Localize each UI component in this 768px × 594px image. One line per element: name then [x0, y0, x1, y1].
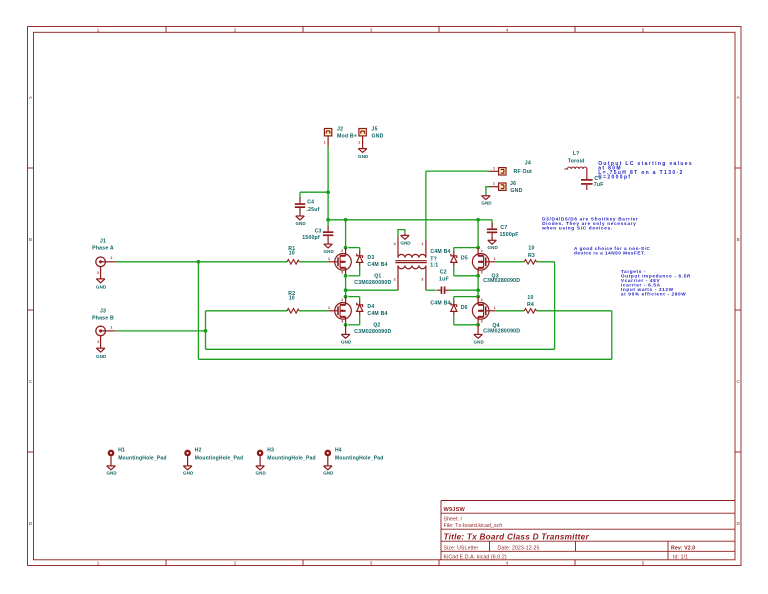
svg-text:GND: GND — [256, 471, 267, 476]
wire R3 to vertical — [537, 261, 555, 263]
svg-text:MountingHole_Pad: MountingHole_Pad — [195, 455, 243, 461]
capacitor C2 1uF — [441, 287, 444, 294]
wire rail C3 to Q1 branch — [328, 219, 346, 221]
junction rail at C3 — [326, 218, 330, 222]
connector J1 Phase A symbol — [96, 257, 115, 279]
svg-text:GND: GND — [96, 354, 107, 359]
transformer T1 1:1 — [395, 237, 426, 291]
svg-text:3: 3 — [481, 271, 483, 275]
wire Phase A to R1 — [198, 261, 287, 263]
connector J5 GND — [359, 129, 366, 136]
svg-text:10: 10 — [289, 296, 295, 302]
ground at H1 — [107, 466, 116, 470]
ground at J5 — [358, 146, 367, 152]
svg-text:1: 1 — [494, 257, 496, 261]
svg-text:C3M0280090D: C3M0280090D — [483, 278, 520, 284]
wire C2 to Q3 source rail — [449, 289, 478, 291]
ground at J3 — [96, 348, 105, 352]
svg-text:KiCad E.D.A. kicad (6.0.2): KiCad E.D.A. kicad (6.0.2) — [444, 555, 507, 561]
ground at H2 — [183, 466, 192, 470]
svg-text:1: 1 — [324, 141, 326, 145]
junction Q1 source node — [344, 274, 348, 278]
title block — [441, 501, 735, 560]
svg-text:Phase B: Phase B — [92, 316, 114, 322]
svg-text:J3: J3 — [100, 308, 106, 314]
svg-text:L?: L? — [573, 151, 580, 157]
wire D5 bottom to Q3 source — [454, 275, 478, 277]
svg-text:MountingHole_Pad: MountingHole_Pad — [267, 455, 315, 461]
svg-text:GND: GND — [96, 285, 107, 290]
ground at Q2 — [341, 325, 350, 339]
wire transformer pin4 to ground loop — [398, 230, 405, 237]
diode D4 C4M B4 schottky — [357, 300, 363, 315]
wire to C4 — [300, 191, 328, 193]
connector J4 RF Out — [499, 168, 506, 175]
wire D3 bottom to Q1 source — [348, 275, 360, 277]
capacitor C? 7uF — [581, 180, 593, 184]
wire Phase B to R2 — [206, 310, 288, 312]
svg-text:H4: H4 — [335, 448, 342, 454]
diode D3 C4M B4 schottky — [357, 251, 363, 266]
svg-text:GND: GND — [474, 340, 485, 345]
svg-text:10: 10 — [527, 295, 533, 301]
resistor R3 10 — [524, 260, 536, 265]
wire Phase B from J3 to junction — [115, 330, 206, 332]
svg-text:Phase A: Phase A — [92, 246, 114, 252]
svg-text:1: 1 — [421, 242, 423, 246]
wire Phase A bottom run to R4 side — [198, 358, 611, 360]
svg-text:C3M0280090D: C3M0280090D — [354, 329, 391, 335]
svg-text:1: 1 — [328, 257, 330, 261]
ground at J1 — [96, 279, 105, 283]
junction Q2 source node — [344, 323, 348, 327]
svg-text:2: 2 — [234, 561, 237, 566]
svg-text:1: 1 — [358, 141, 360, 145]
svg-text:2: 2 — [97, 271, 99, 275]
svg-text:2: 2 — [234, 28, 237, 33]
svg-text:3: 3 — [341, 271, 343, 275]
wire L? to C? — [586, 169, 588, 174]
ground at H3 — [256, 466, 265, 470]
ground at H4 — [324, 466, 333, 470]
svg-text:J4: J4 — [525, 161, 531, 167]
svg-text:Size: USLetter: Size: USLetter — [444, 546, 479, 552]
svg-text:B: B — [737, 237, 740, 242]
wire D5 top elbow — [453, 248, 455, 252]
wire D3 bottom elbow — [359, 266, 361, 276]
svg-text:1500pF: 1500pF — [500, 232, 519, 238]
svg-text:3: 3 — [341, 320, 343, 324]
ground at J6 — [482, 196, 491, 200]
svg-text:1: 1 — [493, 166, 495, 170]
svg-text:1uF: 1uF — [439, 277, 449, 283]
junction Q3 source node — [476, 274, 480, 278]
wire Phase B bottom run to R3 side — [206, 348, 555, 350]
mounting hole H4 MountingHole_Pad — [326, 451, 330, 455]
svg-text:5: 5 — [642, 561, 645, 566]
J2 pin — [327, 136, 329, 146]
junction node Phase B split — [204, 329, 208, 333]
svg-text:D4: D4 — [367, 304, 374, 310]
capacitor C4 .25uf — [295, 204, 305, 207]
wire J6 to ground — [486, 187, 490, 196]
svg-text:File: Tx-board.kicad_sch: File: Tx-board.kicad_sch — [444, 523, 503, 529]
wire D4 bottom to Q2 source — [348, 324, 360, 326]
ground at C3 — [324, 242, 333, 248]
svg-text:R4: R4 — [527, 302, 534, 308]
svg-text:10: 10 — [528, 245, 534, 251]
junction Q1 drain node — [344, 246, 348, 250]
svg-text:Toroid: Toroid — [568, 158, 585, 164]
wire rail Q1 branch to Q3 branch — [346, 219, 479, 221]
junction Q4 drain node — [476, 295, 480, 299]
transistor Q1 C3M0280090D — [329, 248, 352, 276]
svg-text:2: 2 — [341, 298, 343, 302]
svg-text:GND: GND — [183, 471, 194, 476]
wire Q3 drain to D5 top — [454, 247, 478, 249]
mounting hole H1 MountingHole_Pad — [109, 451, 113, 455]
svg-text:1: 1 — [111, 325, 113, 329]
svg-text:H1: H1 — [118, 448, 125, 454]
svg-text:GND: GND — [323, 471, 334, 476]
svg-text:H2: H2 — [195, 448, 202, 454]
svg-text:Q2: Q2 — [373, 323, 380, 329]
svg-text:C4: C4 — [307, 199, 314, 205]
svg-text:GND: GND — [324, 249, 335, 254]
svg-text:.25uf: .25uf — [306, 207, 319, 213]
junction Q4 source node — [476, 323, 480, 327]
wire C4 stub — [299, 192, 301, 198]
svg-text:C7: C7 — [500, 225, 507, 231]
svg-text:1:1: 1:1 — [430, 262, 438, 268]
connector J6 GND — [499, 183, 506, 190]
wire R2 to Q2 gate — [299, 310, 328, 312]
wire D3 top elbow — [359, 248, 361, 252]
svg-text:MountingHole_Pad: MountingHole_Pad — [118, 455, 166, 461]
svg-text:2: 2 — [97, 340, 99, 344]
wire Phase B vertical — [205, 311, 207, 350]
svg-text:4: 4 — [394, 242, 396, 246]
wire Q3 gate to R3 — [495, 261, 524, 263]
wire Q1 drain to D3 top — [348, 247, 360, 249]
svg-text:GND: GND — [372, 133, 384, 139]
wire rail down to Q3 drain — [477, 220, 479, 248]
svg-text:R3: R3 — [528, 253, 535, 259]
wire J2 down to rail — [327, 192, 329, 220]
wire vertical up to R4 right — [611, 311, 613, 360]
ground at C7 — [488, 238, 497, 244]
svg-text:3: 3 — [370, 28, 373, 33]
svg-text:H3: H3 — [267, 448, 274, 454]
svg-text:3: 3 — [481, 320, 483, 324]
wire vertical up to R3 right — [554, 262, 556, 350]
svg-text:MountingHole_Pad: MountingHole_Pad — [335, 455, 383, 461]
svg-text:C4M B4: C4M B4 — [430, 301, 450, 307]
svg-text:Q1: Q1 — [374, 274, 381, 280]
junction rail Q3 branch — [476, 218, 480, 222]
svg-text:1500pf: 1500pf — [302, 235, 320, 241]
svg-text:3: 3 — [370, 561, 373, 566]
svg-text:GND: GND — [488, 245, 499, 250]
svg-text:4: 4 — [506, 28, 509, 33]
connector J3 Phase B symbol — [96, 326, 115, 348]
wire Q4 drain to D6 top — [454, 296, 478, 298]
svg-text:2: 2 — [341, 249, 343, 253]
wire J2 down — [327, 146, 329, 192]
diode D5 C4M B4 schottky — [451, 251, 457, 266]
junction rail Q1 branch — [344, 218, 348, 222]
wire R4 to vertical — [537, 310, 612, 312]
svg-text:3: 3 — [421, 277, 423, 281]
J6 pin — [489, 186, 498, 188]
svg-text:C4M B4: C4M B4 — [367, 311, 387, 317]
junction transformer primary tap — [344, 288, 348, 292]
capacitor C3 1500pf — [323, 232, 333, 235]
wire R1 to Q1 gate — [299, 261, 328, 263]
svg-text:2: 2 — [394, 277, 396, 281]
mounting hole H2 MountingHole_Pad — [185, 451, 189, 455]
svg-text:C3M0280090D: C3M0280090D — [354, 280, 391, 286]
wire rail to C7 — [478, 219, 492, 221]
svg-text:GND: GND — [510, 188, 522, 194]
svg-text:D5: D5 — [461, 255, 468, 261]
wire C3 stub — [327, 220, 329, 227]
junction node Phase A split — [197, 260, 201, 264]
svg-text:B: B — [29, 237, 32, 242]
svg-text:10: 10 — [289, 251, 295, 257]
wire primary right to C2 — [426, 289, 436, 291]
J4 pin — [489, 170, 498, 172]
svg-text:J6: J6 — [510, 181, 516, 187]
ground at Q4 — [474, 325, 483, 339]
wire transformer secondary up — [425, 171, 427, 240]
inductor L? Toroid — [564, 167, 587, 169]
svg-text:C4M B4: C4M B4 — [367, 262, 387, 268]
wire Phase A from J1 to junction — [115, 261, 198, 263]
ground at C4 — [296, 214, 305, 220]
wire Q4 gate to R4 — [495, 310, 524, 312]
svg-text:Rev: V2.0: Rev: V2.0 — [671, 546, 695, 552]
wire D5 bottom elbow — [453, 266, 455, 276]
ground at transformer — [401, 233, 410, 239]
svg-text:1: 1 — [111, 256, 113, 260]
svg-text:C2: C2 — [440, 270, 447, 276]
capacitor C7 1500pF — [487, 229, 497, 232]
transistor Q4 C3M0280090D — [472, 297, 495, 325]
resistor R1 10 — [287, 260, 299, 265]
wire rail down to Q1 drain — [345, 220, 347, 248]
transistor Q2 C3M0280090D — [329, 297, 352, 325]
junction Q2 drain node — [344, 295, 348, 299]
svg-text:Date: 2023-12-25: Date: 2023-12-25 — [498, 546, 540, 552]
wire Q3 source to Q4 drain rail — [477, 276, 479, 297]
svg-text:GND: GND — [358, 154, 369, 159]
svg-text:1: 1 — [493, 182, 495, 186]
svg-text:J5: J5 — [372, 126, 378, 132]
svg-text:2: 2 — [481, 249, 483, 253]
svg-text:A good choice for a non-SiCdev: A good choice for a non-SiCdevice is a 1… — [574, 246, 650, 256]
svg-text:GND: GND — [341, 340, 352, 345]
wire D6 bottom to Q4 source — [454, 324, 478, 326]
svg-text:J2: J2 — [337, 126, 343, 132]
wire D6 bottom elbow — [453, 315, 455, 325]
svg-text:7uF: 7uF — [594, 182, 604, 188]
wire D4 bottom elbow — [359, 315, 361, 325]
wire D6 top elbow — [453, 297, 455, 301]
svg-text:5: 5 — [642, 28, 645, 33]
svg-text:2: 2 — [481, 298, 483, 302]
junction Q3 drain node — [476, 246, 480, 250]
svg-text:D6: D6 — [461, 305, 468, 311]
resistor R2 10 — [287, 309, 299, 314]
svg-text:1: 1 — [97, 28, 100, 33]
wire D4 top elbow — [359, 297, 361, 301]
svg-text:W9JSW: W9JSW — [444, 507, 466, 513]
svg-text:GND: GND — [106, 471, 117, 476]
svg-text:C4M B4: C4M B4 — [430, 249, 450, 255]
svg-text:Sheet: /: Sheet: / — [444, 517, 463, 523]
svg-text:Mod B+: Mod B+ — [337, 133, 357, 139]
junction C4 tap — [326, 190, 330, 194]
svg-text:C3M0280090D: C3M0280090D — [483, 329, 520, 335]
diode D6 C4M B4 schottky — [451, 300, 457, 315]
connector J2 Mod B+ — [324, 129, 331, 136]
svg-text:1: 1 — [97, 561, 100, 566]
svg-text:C3: C3 — [315, 228, 322, 234]
J5 pin — [362, 136, 364, 146]
wire Q1 source to Q2 drain rail — [345, 276, 347, 297]
wire C7 stub — [491, 220, 493, 226]
svg-text:D3: D3 — [367, 255, 374, 261]
svg-text:4: 4 — [506, 561, 509, 566]
wire primary left to transformer — [346, 289, 398, 291]
svg-text:Title: Tx Board Class D Transm: Title: Tx Board Class D Transmitter — [444, 532, 590, 541]
wire RF out — [426, 170, 490, 172]
svg-text:GND: GND — [400, 240, 411, 245]
wire Q2 drain to D4 top — [348, 296, 360, 298]
mounting hole H3 MountingHole_Pad — [258, 451, 262, 455]
junction C2 tap — [476, 288, 480, 292]
svg-text:GND: GND — [481, 201, 492, 206]
svg-text:1: 1 — [494, 306, 496, 310]
resistor R4 10 — [524, 309, 536, 314]
svg-text:RF Out: RF Out — [514, 169, 533, 175]
svg-text:J1: J1 — [100, 239, 106, 245]
svg-text:Id: 1/1: Id: 1/1 — [673, 555, 688, 561]
wire Phase A vertical down — [197, 262, 199, 360]
transistor Q3 C3M0280090D — [472, 248, 495, 276]
svg-text:GND: GND — [295, 221, 306, 226]
svg-text:1: 1 — [328, 306, 330, 310]
